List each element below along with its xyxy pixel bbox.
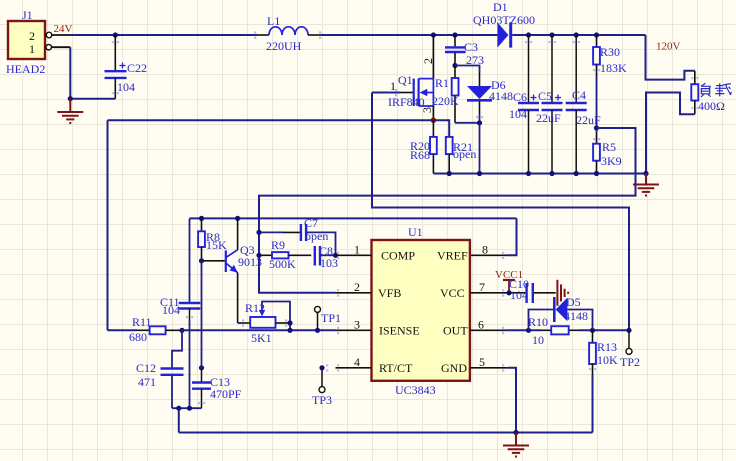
svg-text:VREF: VREF [437,249,468,263]
svg-text:C5: C5 [538,89,552,103]
node junction C7 left [256,230,261,235]
svg-text:open: open [305,229,328,243]
svg-text:U1: U1 [408,225,423,239]
svg-text:ISENSE: ISENSE [379,324,420,338]
svg-text:HEAD2: HEAD2 [6,62,45,76]
svg-text:2: 2 [421,58,435,64]
svg-text:R10: R10 [528,315,548,329]
svg-text:4: 4 [354,355,360,369]
node junction at C22 tap [113,32,118,37]
svg-text:4148: 4148 [489,89,513,103]
node junction C3 tap [452,32,457,37]
svg-text:QH03TZ600: QH03TZ600 [473,13,535,27]
svg-text:open: open [453,147,476,161]
svg-text:680: 680 [129,330,147,344]
svg-text:C12: C12 [136,361,156,375]
wire sense node down to R11 [107,120,109,330]
pin 2 lead VFB [336,280,372,294]
capacitor C3 [445,35,484,67]
svg-text:TP2: TP2 [620,355,640,369]
wire D1 cathode to output corner [512,34,645,36]
node junctions on ground bus [447,171,649,176]
svg-text:10: 10 [532,333,544,347]
svg-text:D5: D5 [566,295,581,309]
wire load bottom return [646,93,695,174]
svg-text:C4: C4 [572,88,586,102]
capacitor C12 [136,330,184,408]
node junction under J1 [68,96,73,101]
wire VREF bias rail [190,217,517,219]
node junction COMP [333,253,338,258]
svg-text:Q1: Q1 [398,73,413,87]
svg-text:VFB: VFB [378,286,401,300]
node junction Q1 drain [431,32,436,37]
node junction filter b [187,406,192,411]
svg-text:2: 2 [29,29,35,43]
svg-text:J1: J1 [22,8,33,22]
wire L1 to D1 anode [321,34,498,36]
node junction R30/R5 divider tap [594,125,599,130]
wire bottom ground bus [179,432,593,434]
node junction source/R20 (manual junction) [431,118,436,123]
svg-text:7: 7 [479,280,485,294]
wire R8 column to RT/CT node [201,261,203,368]
svg-text:TP1: TP1 [321,311,341,325]
potentiometer R12 [238,301,290,345]
resistor R11 [108,315,183,344]
svg-text:C22: C22 [127,61,147,75]
wire GND pin to ground bus [508,368,516,433]
resistor R13 [589,330,618,432]
svg-text:500K: 500K [269,257,296,271]
svg-text:104: 104 [162,303,180,317]
pin 4 lead RT/CT [336,355,372,369]
node junction D5 left [526,328,531,333]
ground symbol (control) [503,433,529,457]
node junction R8 bottom / Q3 base [199,258,204,263]
connector J1 [6,8,52,76]
resistor R1 [432,66,480,123]
svg-text:VCC: VCC [440,286,465,300]
capacitor C10 [509,277,556,303]
wire feedback divider to VFB [259,128,636,293]
ground symbol (output) [633,174,659,196]
svg-text:1: 1 [29,42,35,56]
svg-text:L1: L1 [267,14,280,28]
svg-text:120V: 120V [656,41,681,53]
svg-text:4148: 4148 [564,309,588,323]
wire J1 pin1 to ground [52,47,116,98]
svg-text:R12: R12 [245,301,265,315]
svg-text:24V: 24V [54,23,73,35]
svg-text:UC3843: UC3843 [395,383,436,397]
svg-text:6: 6 [478,317,484,331]
pin 5 lead GND [470,355,508,369]
node junction VCC pin [506,290,511,295]
node junction R9 left [256,253,261,258]
svg-text:470PF: 470PF [210,387,242,401]
svg-text:R30: R30 [600,45,620,59]
svg-text:15K: 15K [206,238,227,252]
test point TP3 [312,368,332,407]
resistor 负载 400ohm load [691,71,731,114]
svg-text:471: 471 [138,375,156,389]
wire 24V rail from J1 pin2 to L1 [52,34,257,36]
capacitor C7 [259,216,336,255]
svg-text:R13: R13 [597,340,617,354]
resistor R8 [198,218,227,260]
svg-text:IRF840: IRF840 [388,95,425,109]
node junctions on output rail [526,32,599,37]
svg-text:R1: R1 [435,76,449,90]
svg-text:R5: R5 [602,140,616,154]
wire VREF pin riser [470,218,517,255]
wire ISENSE net [182,329,336,331]
node junction gate drive [626,328,631,333]
node junction ground bus [513,430,518,435]
svg-text:D1: D1 [493,0,508,14]
node junction TP3 [319,365,324,370]
svg-text:R11: R11 [132,315,152,329]
svg-text:183K: 183K [600,61,627,75]
node junction TP1 [315,328,320,333]
node junction C3 bottom [452,63,457,68]
power port VCC1 [495,269,523,293]
pin 7 lead VCC [470,280,509,294]
svg-text:C3: C3 [464,40,478,54]
svg-text:5: 5 [479,355,485,369]
pin 6 lead OUT [470,317,506,331]
node junction R8 top [199,216,204,221]
diode D6 4148 [455,66,513,174]
node junction R12/ISENSE [287,328,292,333]
resistor R5 [593,128,622,174]
ground symbol (J1 return) [57,99,83,123]
svg-text:RT/CT: RT/CT [379,361,413,375]
node junction D6/R1 [477,120,482,125]
svg-text:104: 104 [509,107,527,121]
resistor R10 [528,315,569,347]
svg-text:R68: R68 [410,148,430,162]
svg-text:104: 104 [510,288,528,302]
ground symbol (rotated, VCC bypass) [557,280,568,306]
svg-text:103: 103 [320,256,338,270]
node junction R13 tap [590,328,595,333]
node junction R12 wiper [287,320,292,325]
svg-text:OUT: OUT [443,324,468,338]
capacitor C13 [192,368,242,408]
pin 3 lead ISENSE [336,317,372,331]
inductor L1 [257,14,321,53]
op-amp U1 UC3843 [372,225,470,397]
pin 1 lead COMP [336,242,372,256]
svg-text:COMP: COMP [381,249,415,263]
capacitor C4 [566,35,601,174]
svg-text:22uF: 22uF [536,111,561,125]
transistor Q1 IRF840 [372,35,435,120]
wire OUT net [506,329,541,331]
resistor R20 [410,120,437,173]
wire ground bus (output side) [433,173,646,175]
wire filter node [172,407,202,409]
svg-text:C7: C7 [304,216,318,230]
svg-text:3: 3 [354,317,360,331]
capacitor C8 [315,244,338,270]
test point TP1 [315,306,342,330]
svg-text:8: 8 [482,242,488,256]
resistor R9 [259,238,311,271]
resistor R21 [446,137,477,174]
svg-text:104: 104 [117,80,135,94]
svg-text:5K1: 5K1 [251,331,272,345]
pin end markers [112,31,699,404]
svg-text:2: 2 [354,280,360,294]
svg-text:GND: GND [441,361,467,375]
diode D1 QH03TZ600 [473,0,535,48]
diode D5 4148 [529,295,593,330]
svg-text:1: 1 [354,242,360,256]
wire Q1 source sense node [108,120,450,137]
transistor Q3 9013 [202,218,263,323]
capacitor C11 [160,218,200,408]
node junction R11/C12 [179,328,184,333]
wire filter node to ground bus [178,408,180,432]
svg-text:3K9: 3K9 [601,154,622,168]
svg-text:TP3: TP3 [312,393,332,407]
capacitor C5 [536,35,563,174]
wire output to load (top) [646,35,695,80]
wire Q1 gate drive [372,93,629,331]
svg-text:R9: R9 [271,238,285,252]
capacitor C6 [509,35,539,174]
svg-text:400Ω: 400Ω [698,99,725,113]
resistor R30 [593,35,627,128]
svg-text:220K: 220K [432,94,459,108]
test point TP2 [620,330,640,369]
capacitor C22 [105,35,148,99]
svg-text:220UH: 220UH [266,39,302,53]
node junction Q3 collector [235,216,240,221]
svg-text:10K: 10K [597,353,618,367]
svg-text:C6: C6 [513,90,527,104]
node junction RT/CT [199,365,204,370]
node junction filter a [176,406,181,411]
